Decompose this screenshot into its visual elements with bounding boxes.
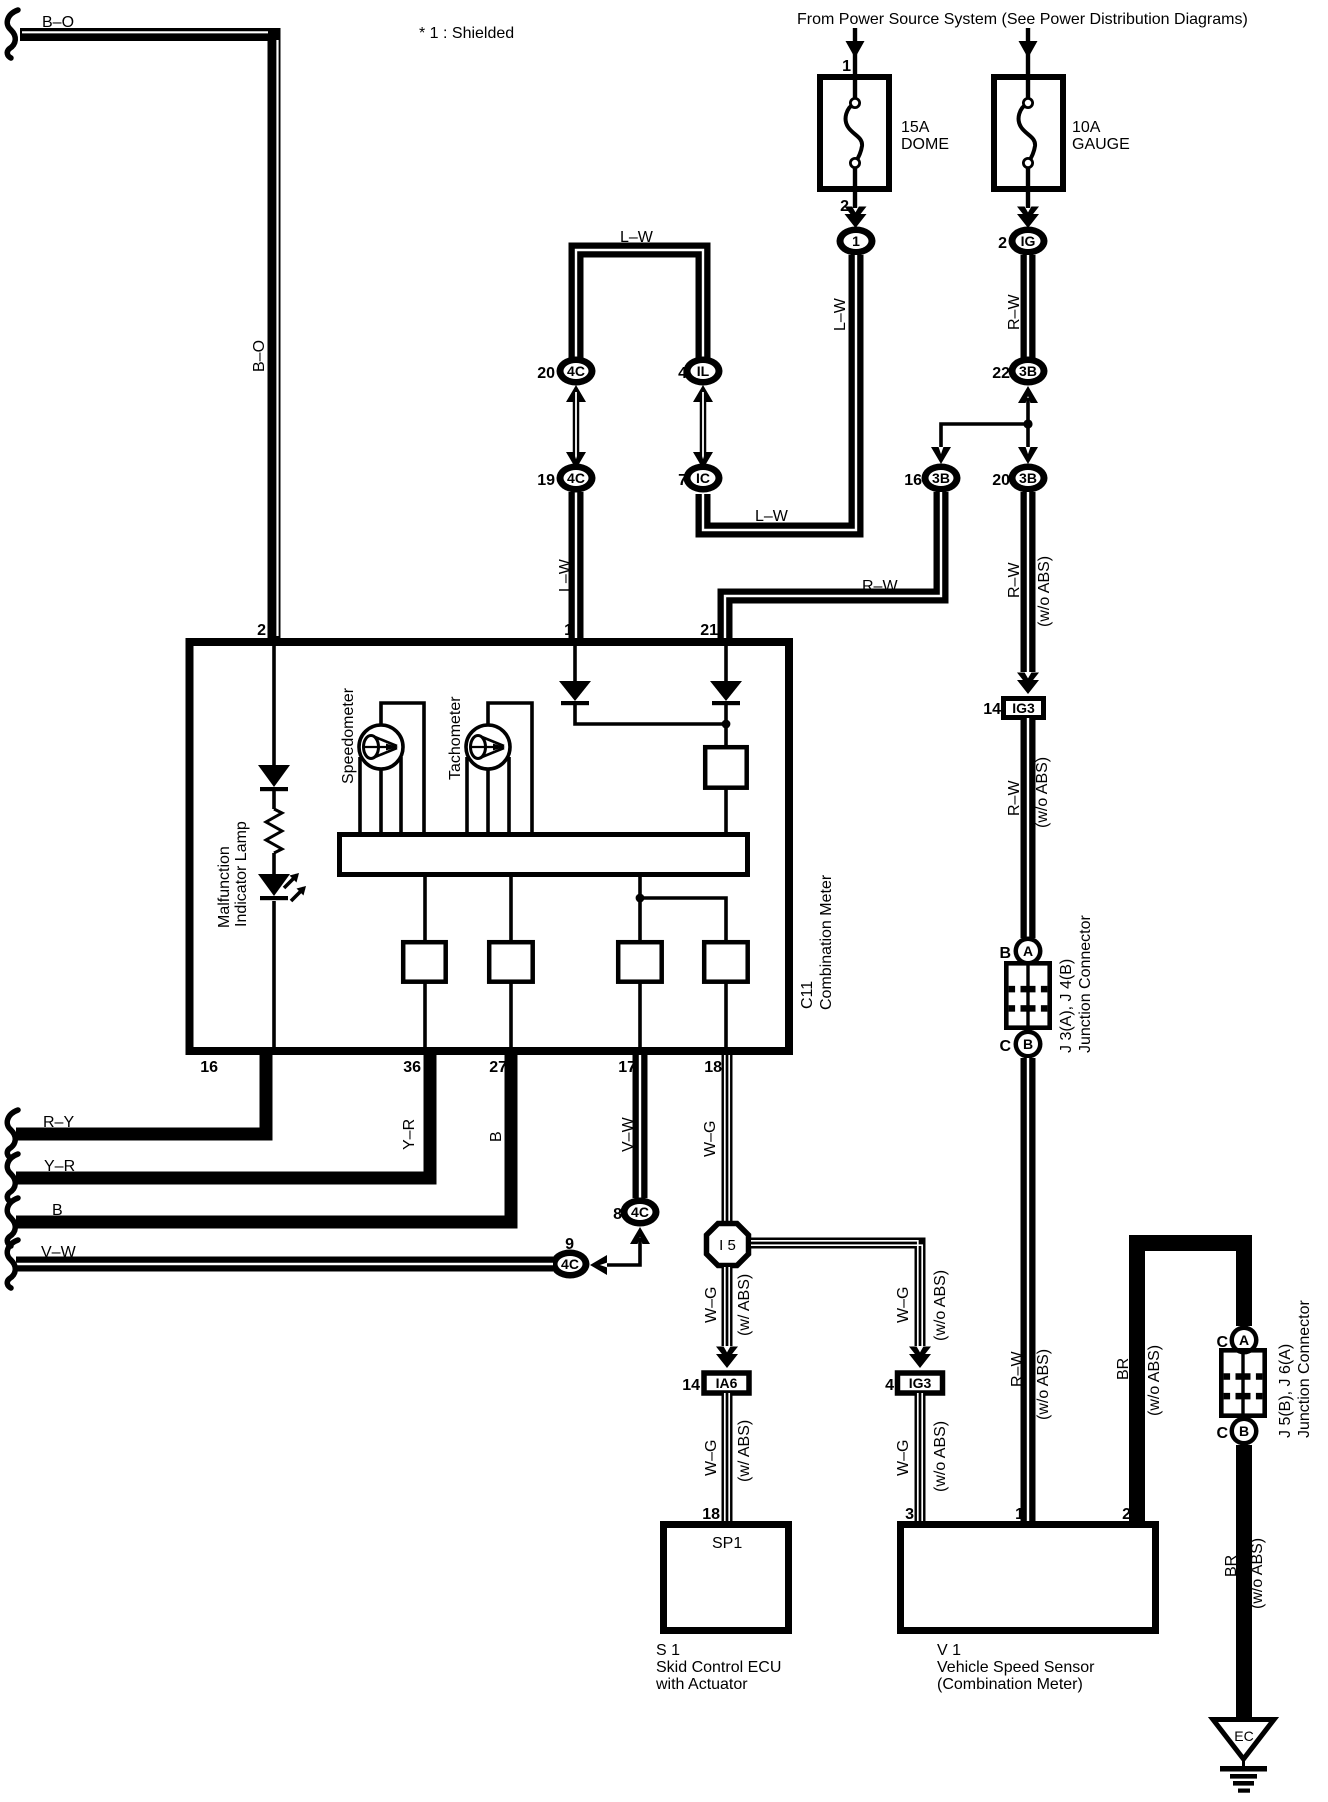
label J3(A) J4(B) [1058,959,1075,1053]
tachometer symbol [466,725,510,769]
svg-text:20: 20 [537,365,555,382]
svg-text:GAUGE: GAUGE [1072,136,1130,153]
svg-text:EC: EC [1234,1728,1253,1744]
component box S1 Skid Control ECU [664,1525,789,1631]
wire R-W (w/o ABS) from junction connector B to V1 pin 1 [1021,1058,1036,1521]
svg-text:R–W: R–W [1009,1351,1026,1387]
svg-text:1: 1 [1015,1506,1024,1523]
svg-text:Indicator Lamp: Indicator Lamp [233,821,250,927]
svg-text:18: 18 [702,1506,720,1523]
connector circle 4-IL [684,357,723,386]
speedometer legs [360,757,401,832]
speedometer bracket [381,703,424,832]
arrow into 4-IG3 [909,1347,931,1369]
svg-text:IG3: IG3 [1012,700,1035,716]
svg-text:W–G: W–G [703,1287,720,1323]
wire R-W (w/o ABS) from 20-3B down to IG3 [1021,492,1036,672]
label L-W (vertical, above pin 1) [557,558,574,592]
wire bar to square 36 [423,875,427,942]
label R-W vertical (below IG3) [1006,780,1023,816]
svg-text:27: 27 [489,1059,507,1076]
connector circle 20-4C [557,357,596,386]
pin 20 label (3B) [992,472,1010,489]
label (w/o ABS) (below IG3) [1034,757,1051,828]
label W-G (I5 to IA6) [703,1287,720,1323]
wire BR from junction connector B to ground EC [1236,1445,1252,1719]
pin 22 label [992,365,1010,382]
label (w/ ABS) (above S1) [736,1420,753,1482]
wire from junction node to 20-3B [1026,424,1030,447]
svg-text:Speedometer: Speedometer [340,687,357,784]
pin 4 label (IG3) [885,1377,894,1394]
label R-Y [43,1114,74,1131]
svg-text:W–G: W–G [895,1440,912,1476]
junction node dot [1023,419,1032,428]
svg-text:BR: BR [1115,1358,1132,1380]
connector circle 1 [837,227,876,256]
wire square to pin 36 [423,982,427,1047]
svg-text:A: A [1239,1332,1249,1348]
label V 1 [937,1642,961,1659]
connector box IA6 [704,1373,749,1393]
power feed arrow to fuse DOME [846,28,865,77]
svg-text:B: B [1023,1036,1033,1052]
label R-W (horizontal mid) [862,578,898,595]
wire diode to resistor [272,791,276,809]
shield symbol B [7,1198,18,1246]
svg-text:14: 14 [682,1377,700,1394]
svg-text:20: 20 [992,472,1010,489]
connector box IG3 (4) [898,1373,943,1393]
square above pin 18 [704,942,748,982]
pin 2 label of connector IG [998,235,1007,252]
pin 18 label [704,1059,722,1076]
pin 36 label [403,1059,421,1076]
connector circle 20-3B [1009,464,1048,493]
svg-text:8: 8 [613,1206,622,1223]
svg-text:Junction Connector: Junction Connector [1296,1299,1313,1438]
wire W-G branch from I5 to IG3 (4) [751,1241,922,1346]
svg-text:2: 2 [998,235,1007,252]
svg-text:C: C [1216,1425,1228,1442]
pin 16 label (meter bottom) [200,1059,218,1076]
wire square to pin 18 [724,982,728,1047]
svg-text:B: B [52,1202,63,1219]
svg-text:2: 2 [257,622,266,639]
junction connector circle A (J3) [1014,937,1043,966]
arrow down into connector 20-3B [1018,447,1038,464]
pin 14 label (IA6) [682,1377,700,1394]
label B at circle A [999,945,1011,962]
svg-text:R–Y: R–Y [43,1114,74,1131]
diode (MIL branch) [258,765,290,791]
label R-W vertical (above V1) [1009,1351,1026,1387]
svg-text:3: 3 [905,1506,914,1523]
svg-text:S 1: S 1 [656,1642,680,1659]
label W-G (above V1 pin3) [895,1440,912,1476]
wire Y-R from meter pin 36 to shield [16,1055,430,1178]
svg-text:J 5(B), J 6(A): J 5(B), J 6(A) [1277,1344,1294,1438]
label Junction Connector (J3) [1077,914,1094,1053]
svg-text:B: B [999,945,1011,962]
wire square to pin 17 [638,982,642,1047]
component square (top right) [705,747,747,788]
label C11 [799,981,816,1009]
combination meter box C11 [190,642,790,1051]
pin 21 label (meter top) [700,622,718,639]
square above pin 17 [618,942,662,982]
tachometer legs [467,757,509,832]
wire L-W from connector 1 down to connector IC [703,255,856,530]
arrow up into connector 4-IL [693,385,713,402]
label R-W (vertical top) [1006,294,1023,330]
label (w/ ABS) (I5 to IA6) [736,1274,753,1336]
label Skid Control ECU [656,1659,781,1676]
label W-G (vertical, above I5) [702,1121,719,1157]
label W-G (above S1) [703,1440,720,1476]
svg-text:IG: IG [1021,233,1036,249]
svg-text:B: B [1239,1423,1249,1439]
wire between 4C connectors [573,392,580,460]
label L-W (top) [620,229,654,246]
pin 16 label (3B) [904,472,922,489]
svg-text:16: 16 [904,472,922,489]
circuit board bar [340,835,748,875]
wire square to pin 27 [509,982,513,1047]
wire between IL and IC [700,392,707,460]
wire meter pin 21 to diode [724,646,728,681]
svg-text:R–W: R–W [1006,780,1023,816]
label BR (upper) [1115,1358,1132,1380]
svg-text:10A: 10A [1072,119,1101,136]
svg-text:(w/o ABS): (w/o ABS) [1034,757,1051,828]
label R-W vertical (above IG3) [1006,562,1023,598]
svg-text:W–G: W–G [702,1121,719,1157]
label Malfunction Indicator Lamp [216,821,250,928]
svg-text:14: 14 [983,701,1001,718]
svg-text:4C: 4C [631,1204,649,1220]
svg-text:I 5: I 5 [719,1237,736,1254]
svg-text:V 1: V 1 [937,1642,961,1659]
svg-text:SP1: SP1 [712,1535,742,1552]
wire LED to meter pin 16 [272,901,276,1047]
wire from 22-3B to junction node [1026,398,1030,424]
wire BR from V1 pin 2 to junction connector A (J5/J6) [1137,1243,1244,1521]
pin 1 label (V1) [1015,1506,1024,1523]
svg-text:36: 36 [403,1059,421,1076]
svg-text:18: 18 [704,1059,722,1076]
resistor (MIL) [266,809,282,853]
label Speedometer [340,687,357,784]
svg-text:(w/o ABS): (w/o ABS) [1249,1538,1266,1609]
pin 1 label (meter top) [564,622,573,639]
svg-text:J 3(A), J 4(B): J 3(A), J 4(B) [1058,959,1075,1053]
svg-text:with Actuator: with Actuator [655,1676,748,1693]
svg-text:Y–R: Y–R [401,1119,418,1150]
pin 8 label [613,1206,622,1223]
arrow into 14-IA6 [716,1347,738,1369]
pin 19 label [537,472,555,489]
diode under pin 21 [710,681,742,705]
label (w/o ABS) (right branch) [932,1270,949,1341]
svg-text:R–W: R–W [1006,294,1023,330]
svg-text:From Power Source System (See: From Power Source System (See Power Dist… [797,11,1248,28]
svg-text:IL: IL [697,363,710,379]
label Y-R (vertical) [401,1119,418,1150]
label C at J5 circle B [1216,1425,1228,1442]
svg-text:15A: 15A [901,119,930,136]
label B (vertical) [488,1131,505,1142]
svg-text:Junction Connector: Junction Connector [1077,914,1094,1053]
wire R-W (w/o ABS) from IG3 to junction connector A [1021,718,1036,938]
label B-O (vertical) [251,340,268,372]
svg-text:IA6: IA6 [716,1375,738,1391]
svg-text:3B: 3B [932,470,950,486]
label C at circle B [999,1038,1011,1055]
tachometer bracket [488,703,532,832]
label (w/o ABS) (above IG3) [1036,556,1053,627]
wire B from meter pin 27 to shield [16,1055,511,1222]
svg-text:V–W: V–W [620,1116,637,1152]
svg-text:DOME: DOME [901,136,949,153]
splice octagon I 5 [707,1224,749,1266]
pin 2 label of fuse DOME [840,198,849,215]
pin 2 label (meter top) [257,622,266,639]
svg-text:(w/ ABS): (w/ ABS) [736,1420,753,1482]
svg-text:(w/ ABS): (w/ ABS) [736,1274,753,1336]
label (w/o ABS) (upper BR) [1146,1345,1163,1416]
diode under pin 1 [559,681,591,705]
connector circle 16-3B [922,464,961,493]
label (Combination Meter) [937,1676,1083,1693]
fuse 15A DOME [820,77,889,208]
svg-text:1: 1 [852,233,860,249]
junction connector circle B (J4) [1014,1030,1043,1059]
svg-text:(w/o ABS): (w/o ABS) [1146,1345,1163,1416]
pin 2 label (V1) [1122,1506,1131,1523]
label 10A GAUGE [1072,119,1130,153]
svg-text:IG3: IG3 [909,1375,932,1391]
svg-text:W–G: W–G [703,1440,720,1476]
label From Power Source System [797,11,1248,28]
wire bar to square 17 [638,875,642,942]
svg-text:IC: IC [696,470,710,486]
label W-G (right branch) [895,1287,912,1323]
label Y-R (horizontal) [44,1158,75,1175]
label C at J5 circle A [1216,1334,1228,1351]
pin 7 label [678,472,687,489]
svg-text:(Combination Meter): (Combination Meter) [937,1676,1083,1693]
fuse 10A GAUGE [994,77,1063,208]
junction connector J5(B) J6(A) box [1221,1350,1264,1415]
svg-text:4C: 4C [567,470,585,486]
svg-text:Combination Meter: Combination Meter [818,874,835,1010]
arrow into connector 1 [845,207,867,229]
wire inside meter pin2 to MIL [272,646,276,765]
label L-W (horizontal mid) [755,508,789,525]
wire L-W top loop from IL to 4C [576,250,703,358]
wire W-G from meter pin 18 to splice I5 [725,1055,729,1221]
label V-W (vertical) [620,1116,637,1152]
label with Actuator [655,1676,748,1693]
svg-text:B: B [488,1131,505,1142]
svg-text:R–W: R–W [862,578,898,595]
label (w/o ABS) (above V1 pin1) [1035,1349,1052,1420]
svg-text:(w/o ABS): (w/o ABS) [932,1421,949,1492]
svg-text:C11: C11 [799,981,816,1009]
ground EC triangle [1213,1720,1274,1760]
arrow down into connector 7-IC [693,452,713,469]
shield symbol Y-R [7,1154,18,1202]
arrow into connector IG [1017,207,1039,229]
svg-text:3B: 3B [1019,363,1037,379]
junction dot below bar [636,894,645,903]
svg-text:4: 4 [885,1377,894,1394]
connector circle 22-3B [1009,357,1048,386]
pin 18 label (S1) [702,1506,720,1523]
component box V1 Vehicle Speed Sensor [901,1525,1156,1631]
svg-text:(w/o ABS): (w/o ABS) [932,1270,949,1341]
speedometer symbol [359,725,403,769]
square above pin 27 [489,942,533,982]
arrow left into 9-4C [590,1255,607,1275]
arrow up into 8-4C [630,1227,650,1244]
arrow into 14-IG3 [1017,673,1039,695]
label Combination Meter [818,874,835,1010]
label (w/o ABS) (above V1 pin3) [932,1421,949,1492]
power feed arrow to fuse GAUGE [1019,28,1038,77]
svg-text:V–W: V–W [41,1244,77,1261]
connector circle IG [1009,227,1048,256]
wire square to circuit bar [724,788,728,834]
svg-text:(w/o ABS): (w/o ABS) [1035,1349,1052,1420]
wire meter pin 1 to diode [573,646,577,681]
pin 14 label (IG3) [983,701,1001,718]
arrow up into connector 20-4C [566,385,586,402]
wire R-W from connector IG down to connector 22-3B [1021,255,1036,358]
branch wire to square 18 [640,898,726,942]
svg-text:W–G: W–G [895,1287,912,1323]
connector circle 8-4C [621,1198,660,1227]
wire diode1 to junction [575,705,726,724]
arrow down into connector 19-4C [566,452,586,469]
label BR (lower) [1223,1555,1240,1577]
pin 17 label [618,1059,636,1076]
connector circle 9-4C [551,1250,590,1279]
wire W-G from IG3 to V1 pin 3 [918,1393,922,1521]
shield symbol V-W [7,1240,18,1288]
junction connector circle B (J5/J6) [1230,1417,1259,1446]
label B (horizontal) [52,1202,63,1219]
svg-text:* 1 : Shielded: * 1 : Shielded [419,25,514,42]
wire R-Y from meter pin 16 to shield [16,1055,266,1134]
shield symbol for wire B-O [7,10,18,58]
shield symbol R-Y [7,1110,18,1158]
wire V-W from connector 9-4C to shield [16,1257,553,1272]
svg-text:Tachometer: Tachometer [447,696,464,780]
label (w/o ABS) (lower BR) [1249,1538,1266,1609]
svg-text:Y–R: Y–R [44,1158,75,1175]
label J5(B) J6(A) [1277,1344,1294,1438]
wire from 8-4C to 9-4C arrow [607,1238,640,1265]
connector circle 19-4C [557,464,596,493]
pin 27 label [489,1059,507,1076]
junction connector circle A (J5/J6) [1230,1326,1259,1355]
label Vehicle Speed Sensor [937,1659,1095,1676]
svg-text:R–W: R–W [1006,562,1023,598]
label B-O (horizontal) [42,14,74,31]
svg-text:L–W: L–W [557,558,574,592]
pin 20 label [537,365,555,382]
label S 1 [656,1642,680,1659]
svg-text:Vehicle Speed Sensor: Vehicle Speed Sensor [937,1659,1095,1676]
svg-text:Skid Control ECU: Skid Control ECU [656,1659,781,1676]
wire W-G from I5 down to IA6 [725,1267,729,1346]
junction dot inside meter [722,720,731,729]
svg-text:21: 21 [700,622,718,639]
wire L-W from connector 19-4C down to meter pin 1 [569,492,584,642]
LED malfunction indicator lamp [258,873,306,901]
svg-text:16: 16 [200,1059,218,1076]
label L-W (vertical, under connector 1) [832,297,849,331]
wire junction to component square [724,705,728,747]
svg-text:Malfunction: Malfunction [216,846,233,928]
svg-text:L–W: L–W [620,229,654,246]
pin 1 label of fuse DOME [842,58,851,75]
note *1 Shielded [419,25,514,42]
svg-text:3B: 3B [1019,470,1037,486]
wire W-G from IA6 to S1 pin 18 [725,1393,729,1521]
svg-text:(w/o ABS): (w/o ABS) [1036,556,1053,627]
svg-text:L–W: L–W [832,297,849,331]
label 15A DOME [901,119,949,153]
pin 4 label [678,365,687,382]
svg-text:A: A [1023,943,1033,959]
svg-text:22: 22 [992,365,1010,382]
junction connector J3(A) J4(B) box [1006,963,1049,1027]
svg-text:4C: 4C [561,1256,579,1272]
connector box IG3 (14) [1004,699,1044,718]
svg-text:B–O: B–O [251,340,268,372]
wire resistor to LED [272,853,276,874]
ground symbol [1220,1757,1267,1793]
square above pin 36 [403,942,446,982]
svg-text:BR: BR [1223,1555,1240,1577]
wire B-O from shield to combination meter pin 2 [20,32,278,642]
wire R-W from 16-3B down to meter pin 21 [725,492,941,642]
wire bar to square 27 [509,875,513,942]
wire V-W from meter pin 17 to connector 8-4C [633,1055,648,1198]
label Junction Connector (J5) [1296,1299,1313,1438]
label V-W (horizontal) [41,1244,77,1261]
label Tachometer [447,696,464,780]
connector circle 7-IC [684,464,723,493]
svg-text:1: 1 [842,58,851,75]
svg-text:L–W: L–W [755,508,789,525]
arrow down into connector 16-3B [931,447,951,464]
pin 9 label [565,1236,574,1253]
svg-text:1: 1 [564,622,573,639]
wire from junction node to 16-3B [941,424,1026,447]
svg-text:C: C [999,1038,1011,1055]
svg-text:19: 19 [537,472,555,489]
pin 3 label (V1) [905,1506,914,1523]
arrow up into connector 22-3B [1018,386,1038,403]
svg-text:4C: 4C [567,363,585,379]
